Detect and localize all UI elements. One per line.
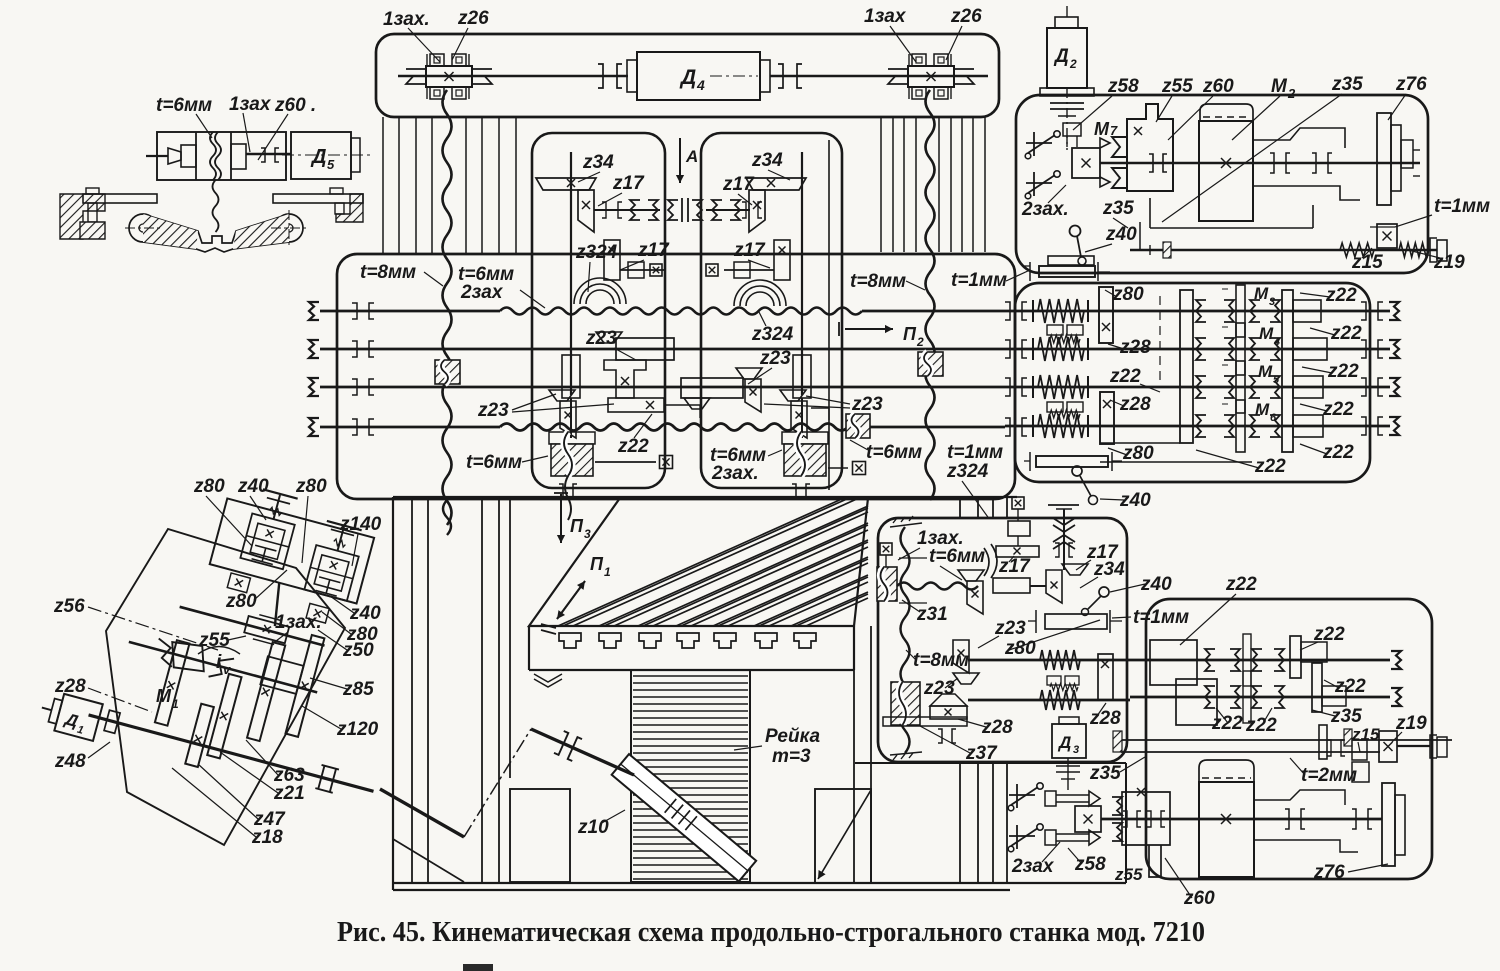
worm wheel lower BR xyxy=(891,682,920,725)
big gear M BRB dashed top xyxy=(1199,760,1254,782)
cone clutch pair TR xyxy=(1112,137,1127,188)
pawl housings BRB xyxy=(1045,791,1056,806)
svg-text:z17: z17 xyxy=(612,173,645,194)
main cross shaft xyxy=(398,75,628,78)
bevel z34 BR xyxy=(1046,570,1062,603)
jaw clutches M3-M6 xyxy=(1196,300,1206,322)
worm wheel upper xyxy=(877,567,897,601)
central feed block rounded rect xyxy=(337,254,1015,499)
svg-text:z23: z23 xyxy=(851,394,883,415)
shaft left end bracket y349 xyxy=(309,340,319,358)
svg-text:z35: z35 xyxy=(1331,74,1363,95)
right middle block rounded rect xyxy=(1015,283,1370,482)
gearbox z55 z60 stepped xyxy=(1127,104,1173,191)
svg-text:Д: Д xyxy=(679,66,696,89)
worm engagement on x930 xyxy=(918,352,943,376)
gear z28 column BR xyxy=(1098,654,1113,700)
svg-text:z50: z50 xyxy=(342,640,374,661)
vertical shaft x1064 top BR xyxy=(1063,509,1065,570)
shaft a xyxy=(180,607,325,646)
right gearbox z26 xyxy=(908,66,954,87)
shaft left bearing y311 xyxy=(352,303,357,319)
z55 coupling gear xyxy=(244,616,289,643)
svg-text:z60 .: z60 . xyxy=(274,95,316,116)
right gear blocks xyxy=(1293,300,1321,322)
svg-text:z22: z22 xyxy=(1330,323,1362,344)
svg-text:z22: z22 xyxy=(1322,442,1354,463)
overrunning arcs xyxy=(984,544,997,578)
bed top edge xyxy=(393,496,1017,498)
svg-text:z324: z324 xyxy=(751,324,794,345)
gear column BR right xyxy=(1290,636,1301,678)
clutch housing upper xyxy=(1150,640,1197,685)
screw box t1mm upper xyxy=(1048,256,1094,265)
svg-text:i: i xyxy=(216,652,222,673)
bevel z23 down-left xyxy=(549,390,575,401)
svg-text:t=6мм: t=6мм xyxy=(866,442,922,463)
nut boxes z15 xyxy=(1352,740,1367,760)
table top surface xyxy=(529,498,868,626)
svg-text:z120: z120 xyxy=(336,719,379,740)
svg-text:t=8мм: t=8мм xyxy=(850,271,906,292)
svg-text:z28: z28 xyxy=(1089,708,1121,729)
right box lower bevel group xyxy=(793,355,811,398)
svg-text:z10: z10 xyxy=(577,817,609,838)
arc rainbow right xyxy=(734,280,786,306)
T-stem spring 2 xyxy=(338,527,344,551)
vertical worm shaft x905 xyxy=(901,527,910,753)
shaft IV BR xyxy=(968,699,1130,702)
svg-text:z40: z40 xyxy=(1105,224,1137,245)
vertical worm shaft left x447 xyxy=(443,90,452,525)
bevel shaft left box y210 xyxy=(594,209,660,211)
svg-text:z76: z76 xyxy=(1313,862,1345,883)
gear z60 block (TL) xyxy=(231,144,246,169)
svg-text:z17: z17 xyxy=(637,240,670,261)
detent pair lower xyxy=(1047,402,1063,412)
svg-text:z28: z28 xyxy=(54,676,86,697)
svg-text:z80: z80 xyxy=(193,476,225,497)
svg-text:z22: z22 xyxy=(1211,713,1243,734)
svg-text:z60: z60 xyxy=(1202,76,1234,97)
housing right BRB xyxy=(1254,790,1345,805)
gear housing dashed top M2 xyxy=(1200,104,1253,121)
svg-text:2: 2 xyxy=(1287,86,1296,101)
svg-text:4: 4 xyxy=(696,77,705,93)
bevel gear z34 left xyxy=(536,178,596,190)
svg-text:M: M xyxy=(1259,324,1274,343)
feed screw lower TR xyxy=(1130,249,1437,251)
svg-text:z17: z17 xyxy=(722,174,755,195)
svg-text:z55: z55 xyxy=(1161,76,1193,97)
ratchet mech upper (TR) xyxy=(1033,132,1035,156)
gear blocks BR right xyxy=(1301,642,1327,662)
small pinion box a xyxy=(227,573,250,593)
svg-text:z19: z19 xyxy=(1395,713,1427,734)
gear z23 tee left xyxy=(604,360,646,398)
svg-text:Д: Д xyxy=(310,146,326,168)
variator gear cluster 1 xyxy=(240,513,294,569)
svg-text:Д: Д xyxy=(1057,733,1071,752)
upper variator box xyxy=(210,498,374,603)
svg-text:4: 4 xyxy=(1273,336,1280,348)
gear bar 3 xyxy=(207,674,241,759)
bed right columns xyxy=(959,497,961,883)
clutch housing lower xyxy=(1176,679,1217,725)
inner gear group box right xyxy=(701,133,842,488)
worm shaft tail x447 xyxy=(443,500,451,535)
comb column lines left xyxy=(382,117,384,254)
svg-text:z34: z34 xyxy=(751,150,783,171)
shaft I xyxy=(320,310,500,313)
svg-text:П: П xyxy=(903,324,917,344)
svg-text:t=8мм: t=8мм xyxy=(360,262,416,283)
svg-text:z40: z40 xyxy=(349,603,381,624)
variator gear cluster 2 xyxy=(304,545,358,601)
small pinion box b xyxy=(306,603,329,623)
svg-text:1зах.: 1зах. xyxy=(383,9,430,30)
svg-text:z22: z22 xyxy=(1322,399,1354,420)
inner gear group box left xyxy=(532,133,665,488)
gearbox housing D5 drive xyxy=(157,132,286,180)
shaft IV right xyxy=(1130,696,1390,699)
screw right end xyxy=(1397,745,1430,747)
arrow P1 double xyxy=(541,624,556,628)
svg-text:z26: z26 xyxy=(457,8,489,29)
small clutch sliders xyxy=(1236,285,1245,337)
svg-text:z80: z80 xyxy=(1004,638,1036,659)
svg-text:z23: z23 xyxy=(477,400,509,421)
svg-text:2: 2 xyxy=(916,335,924,349)
sleeve cylinder xyxy=(993,578,1030,593)
incoming shaft from gearbox xyxy=(380,789,464,837)
shaft b M1 xyxy=(129,642,317,692)
vertical shaft left box x571 xyxy=(570,152,572,395)
svg-text:z15: z15 xyxy=(1351,725,1380,744)
bxx and z17 gear top BR xyxy=(1012,497,1024,509)
shaft left end bracket y427 xyxy=(309,418,319,436)
svg-text:z22: z22 xyxy=(1225,574,1257,595)
lever z40 lower xyxy=(1072,466,1082,476)
lead screw t2mm xyxy=(1121,739,1452,741)
svg-text:П: П xyxy=(570,516,584,536)
svg-text:t=2мм: t=2мм xyxy=(1301,765,1357,786)
support bxx top xyxy=(880,543,892,555)
coupling on output shaft xyxy=(315,765,339,793)
svg-text:z15: z15 xyxy=(1351,252,1383,273)
slider bar left xyxy=(608,398,664,412)
svg-text:3: 3 xyxy=(1269,296,1275,308)
svg-text:1: 1 xyxy=(604,565,611,579)
svg-text:m=3: m=3 xyxy=(772,746,811,767)
top housing rounded rect xyxy=(376,34,999,117)
svg-text:z26: z26 xyxy=(950,6,982,27)
shaft right bearing y427 xyxy=(1005,418,1010,436)
worm screw vertical (TL) xyxy=(210,132,216,180)
svg-text:z140: z140 xyxy=(339,514,382,535)
motor D1 xyxy=(54,694,102,741)
shaft left end bracket y311 xyxy=(309,302,319,320)
motor D2 xyxy=(1047,28,1087,88)
svg-text:M: M xyxy=(1258,362,1273,381)
T-stem spring 1 xyxy=(274,495,280,519)
bevel gear z34 right xyxy=(746,178,806,190)
shaft left bearing y349 xyxy=(352,341,357,357)
springs on shafts xyxy=(1038,299,1084,323)
housing profile right of M2 xyxy=(1253,128,1345,148)
rack housing xyxy=(631,670,750,882)
big gear M2 xyxy=(1199,121,1253,221)
input shaft and gear (TL) xyxy=(146,155,168,157)
svg-text:z56: z56 xyxy=(53,596,85,617)
gear z80-z28 column upper xyxy=(1099,287,1113,343)
bevel z23 mid BR xyxy=(953,640,969,673)
coupling left of motor D4 xyxy=(598,64,603,88)
right support bracket xyxy=(330,188,343,194)
svg-text:z31: z31 xyxy=(916,604,948,625)
shaft III right xyxy=(1130,659,1390,662)
svg-text:t=6мм: t=6мм xyxy=(156,95,212,116)
gear z23 sleeve left xyxy=(616,338,674,360)
svg-text:П: П xyxy=(590,554,604,574)
svg-text:2зах: 2зах xyxy=(460,282,504,303)
variator output stem xyxy=(268,583,286,626)
screw box t1mm BR xyxy=(1045,614,1107,629)
svg-text:Рис. 45. Кинематическая схема: Рис. 45. Кинематическая схема продольно-… xyxy=(337,917,1205,948)
shaft left bearing y427 xyxy=(352,419,357,435)
svg-text:z22: z22 xyxy=(617,436,649,457)
svg-text:z22: z22 xyxy=(1254,456,1286,477)
table T-slot ribs xyxy=(558,498,859,626)
shaft c output xyxy=(89,715,374,791)
divider line x829 xyxy=(828,140,830,490)
motor D3 xyxy=(1059,717,1079,724)
dash-dot link xyxy=(464,729,531,837)
ratchet upper BRB xyxy=(1016,784,1018,808)
flange disc z76 xyxy=(1377,113,1391,205)
pinion z19 xyxy=(1379,731,1397,762)
bed bottom-right boundary xyxy=(855,762,1126,764)
spring loaded pinion z19 xyxy=(1377,224,1397,248)
arrow P2 xyxy=(838,322,840,336)
apron V detail xyxy=(534,674,562,687)
wavy feed shaft y586 xyxy=(897,583,978,590)
svg-text:z324: z324 xyxy=(575,242,618,263)
gear plate column A xyxy=(1180,290,1193,443)
svg-text:M: M xyxy=(1255,400,1270,419)
svg-text:t=1мм: t=1мм xyxy=(951,270,1007,291)
svg-text:z22: z22 xyxy=(1245,715,1277,736)
gear z324 left stack xyxy=(604,240,620,280)
svg-text:t=6мм: t=6мм xyxy=(929,546,985,567)
shaft III xyxy=(320,386,1005,389)
jaw clutches BR right xyxy=(1205,649,1215,671)
ratchet mech lower (TR) xyxy=(1033,172,1035,196)
svg-text:z80: z80 xyxy=(1122,443,1154,464)
svg-text:1зах: 1зах xyxy=(229,94,272,115)
svg-text:z18: z18 xyxy=(251,827,283,848)
svg-text:z324: z324 xyxy=(946,461,989,482)
vertical shaft right box x802 xyxy=(801,152,803,395)
svg-text:2: 2 xyxy=(1069,57,1077,71)
shaft right bearing y311 xyxy=(1005,302,1010,320)
detent BR xyxy=(1047,676,1061,685)
svg-text:z80: z80 xyxy=(295,476,327,497)
motor D2 cap xyxy=(1055,17,1078,28)
screw box t1mm lower xyxy=(1036,456,1108,467)
connecting rods TR block to screw xyxy=(1139,222,1141,250)
coupling below D2 xyxy=(1050,102,1084,104)
screw support plate z35 xyxy=(1319,725,1327,759)
pawl housing M7 xyxy=(1063,123,1081,136)
gear z85 block xyxy=(260,656,303,694)
svg-text:5: 5 xyxy=(327,157,335,172)
bed columns left xyxy=(411,497,413,883)
shaft IV xyxy=(320,426,500,429)
bed outer left edge xyxy=(392,497,394,890)
bed corner diagonal left xyxy=(393,839,464,882)
svg-text:z23: z23 xyxy=(759,348,791,369)
svg-text:M: M xyxy=(1271,76,1288,97)
svg-text:M: M xyxy=(1094,119,1110,139)
svg-text:z37: z37 xyxy=(965,743,998,764)
svg-text:1зах: 1зах xyxy=(864,6,907,27)
shaft left end bracket y387 xyxy=(309,378,319,396)
svg-text:3: 3 xyxy=(1073,744,1079,756)
arrow P3 xyxy=(554,492,568,494)
arc rainbow left xyxy=(574,278,626,304)
shafts through right mid block xyxy=(1005,310,1390,313)
worm gear bottom left box xyxy=(549,432,595,444)
svg-text:v: v xyxy=(223,662,231,677)
gear bar 2 xyxy=(185,704,214,767)
main shaft TR y163 xyxy=(1100,162,1420,165)
left support bracket xyxy=(86,188,99,194)
svg-text:t=1мм: t=1мм xyxy=(1434,196,1490,217)
svg-text:z23: z23 xyxy=(923,678,955,699)
bevel shaft right box y210 xyxy=(706,209,750,211)
left pedestal xyxy=(510,789,570,882)
vertical lower shaft left box xyxy=(570,398,572,438)
svg-text:z80: z80 xyxy=(225,591,257,612)
T-slot feet profiles xyxy=(559,633,581,648)
M1 cone clutch xyxy=(153,638,235,681)
gear bar 1 xyxy=(155,640,190,725)
svg-text:2зах: 2зах xyxy=(1011,856,1055,877)
svg-text:z22: z22 xyxy=(1327,361,1359,382)
svg-text:z28: z28 xyxy=(1119,337,1151,358)
svg-text:Д: Д xyxy=(1053,46,1069,67)
worm engagement on x447 xyxy=(435,360,460,384)
left gearbox z26 xyxy=(426,66,472,87)
svg-text:Рейка: Рейка xyxy=(765,726,820,747)
dashed engage lines xyxy=(1115,386,1180,388)
top right block rounded rect xyxy=(1016,95,1428,273)
coupling below worm BR xyxy=(938,729,942,743)
gear z28-z80 column lower xyxy=(1100,392,1114,444)
rack hatch lines xyxy=(633,676,748,879)
motor D5 xyxy=(291,132,351,179)
worm engagement shaft IV right end xyxy=(846,414,870,438)
svg-text:z17: z17 xyxy=(998,556,1031,577)
svg-text:z17: z17 xyxy=(733,240,766,261)
BR right block rounded rect xyxy=(1146,599,1432,879)
svg-text:z21: z21 xyxy=(273,783,305,804)
disc z76 BRB xyxy=(1382,783,1395,866)
table front face xyxy=(529,669,854,671)
vertical worm shaft right x930 xyxy=(926,90,935,500)
big gear M BRB xyxy=(1199,782,1254,877)
coupling below worm left xyxy=(559,484,563,498)
svg-text:6: 6 xyxy=(1270,412,1277,424)
svg-text:z19: z19 xyxy=(1433,252,1465,273)
svg-text:M: M xyxy=(1254,284,1269,303)
svg-text:z35: z35 xyxy=(1089,763,1121,784)
comb column lines right xyxy=(880,117,882,252)
ground hatch left support xyxy=(60,194,105,239)
shaft left bearing y387 xyxy=(352,379,357,395)
coupling on drive shaft xyxy=(554,731,582,761)
svg-text:1зах.: 1зах. xyxy=(275,612,322,633)
bottom page artifact xyxy=(463,964,493,971)
gearbox x BRB xyxy=(1075,806,1101,832)
svg-text:M: M xyxy=(156,686,172,706)
z55 stepped gearbox BRB xyxy=(1122,792,1170,877)
shaft right bearing y349 xyxy=(1005,340,1010,358)
svg-text:7: 7 xyxy=(1110,123,1118,138)
svg-text:5: 5 xyxy=(1273,374,1280,386)
gear bar 4 xyxy=(247,642,285,741)
svg-text:z55: z55 xyxy=(1114,865,1143,884)
svg-text:t=1мм: t=1мм xyxy=(947,442,1003,463)
gear z48 xyxy=(104,710,120,733)
right columns under table xyxy=(853,670,855,883)
main shaft BRB xyxy=(1101,818,1382,821)
gear bar 5 xyxy=(285,635,324,737)
gear z324 right stack xyxy=(706,264,718,276)
ratchet lower BRB xyxy=(1016,825,1018,849)
svg-text:z76: z76 xyxy=(1395,74,1427,95)
svg-text:z80: z80 xyxy=(1112,284,1144,305)
housing bottom lines TR xyxy=(1149,198,1151,228)
arrow A xyxy=(679,138,681,183)
svg-text:1: 1 xyxy=(76,724,85,737)
svg-text:A: A xyxy=(685,147,698,166)
lever z40 BR xyxy=(1099,587,1109,597)
inclined gearbox plate xyxy=(106,529,345,845)
svg-text:z58: z58 xyxy=(1107,76,1139,97)
svg-text:t=8мм: t=8мм xyxy=(913,650,969,671)
gear z23 sleeve right (center) xyxy=(681,378,743,398)
drive shaft to z10 xyxy=(531,729,634,775)
right pedestal with diagonal arrow xyxy=(815,789,871,883)
bevel z23 right pair xyxy=(745,379,761,412)
svg-text:z22: z22 xyxy=(1334,676,1366,697)
detent pair upper xyxy=(1047,325,1063,335)
shaft III BR xyxy=(968,659,1130,662)
svg-text:z22: z22 xyxy=(1109,366,1141,387)
pinion bar z10 xyxy=(612,754,757,881)
shaft II xyxy=(320,348,1005,351)
couplings between boxes top xyxy=(668,200,678,220)
rocker lever (TL) xyxy=(129,214,157,242)
svg-text:z34: z34 xyxy=(582,152,614,173)
shaft right bearing y387 xyxy=(1005,378,1010,396)
svg-text:z58: z58 xyxy=(1074,854,1106,875)
svg-text:1: 1 xyxy=(172,697,179,711)
svg-text:z48: z48 xyxy=(54,751,86,772)
svg-text:2зах.: 2зах. xyxy=(711,463,759,484)
